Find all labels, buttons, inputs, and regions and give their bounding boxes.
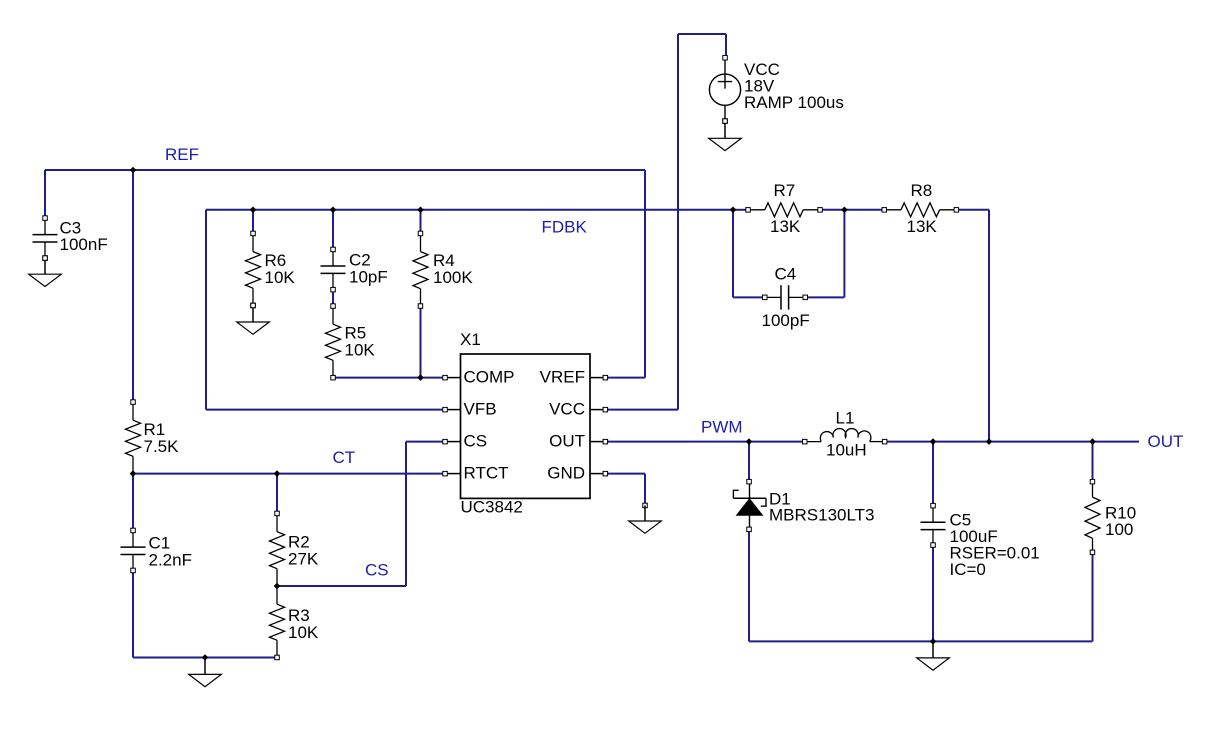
junction FDBK/C2 bbox=[330, 207, 337, 214]
capacitor C4 bbox=[763, 285, 808, 309]
IC X1 UC3842 body bbox=[443, 354, 608, 498]
junction CT/R1 bbox=[130, 470, 137, 477]
svg-text:OUT: OUT bbox=[1148, 432, 1184, 451]
wire C4 right vertical bbox=[843, 210, 845, 298]
wire FDBK to VFB pin bbox=[206, 409, 445, 411]
wire OUT rail to C5 bbox=[932, 442, 934, 506]
ground left rail bbox=[189, 658, 222, 687]
svg-text:CS: CS bbox=[365, 561, 389, 580]
junction CT/R2 bbox=[274, 470, 281, 477]
resistor R10 bbox=[1085, 479, 1100, 554]
svg-text:CT: CT bbox=[333, 448, 356, 467]
wire C1 to bottom rail bbox=[132, 571, 134, 658]
wire OUT rail to R10 bbox=[1092, 442, 1094, 482]
ground right rail bbox=[917, 641, 950, 670]
junction COMP/R4/R5 bbox=[417, 374, 424, 381]
wire C5 to bottom rail bbox=[932, 545, 934, 641]
wire R4 to COMP node bbox=[420, 306, 422, 378]
resistor R8 bbox=[882, 203, 959, 217]
junction FDBK/R4 bbox=[417, 207, 424, 214]
resistor R2 bbox=[270, 511, 285, 586]
wire REF rail horizontal bbox=[45, 169, 645, 171]
svg-text:MBRS130LT3: MBRS130LT3 bbox=[769, 506, 875, 525]
wire VREF pin stub bbox=[605, 377, 645, 379]
junction REF/R1 bbox=[130, 167, 137, 174]
resistor R5 bbox=[326, 304, 341, 380]
wire CS vertical bbox=[405, 442, 407, 586]
svg-text:L1: L1 bbox=[836, 409, 855, 428]
wire FDBK to R4 bbox=[420, 210, 422, 234]
diode D1 bbox=[733, 479, 766, 531]
resistor R3 bbox=[270, 586, 285, 660]
svg-text:CS: CS bbox=[464, 432, 488, 451]
wire C4 left horizontal bbox=[733, 296, 765, 298]
svg-text:100pF: 100pF bbox=[762, 311, 810, 330]
wire VCC top horizontal bbox=[678, 33, 726, 35]
wire CS to pin bbox=[406, 441, 445, 443]
svg-text:13K: 13K bbox=[907, 217, 938, 236]
wire GND pin stub bbox=[605, 473, 645, 475]
svg-text:R8: R8 bbox=[911, 181, 933, 200]
svg-text:RAMP 100us: RAMP 100us bbox=[744, 93, 844, 112]
wire FDBK to R6 bbox=[252, 210, 254, 234]
wire C4 right horizontal bbox=[805, 296, 844, 298]
junction CS/R2/R3 bbox=[274, 583, 281, 590]
wire GND pin down bbox=[644, 474, 646, 506]
svg-text:100: 100 bbox=[1105, 520, 1133, 539]
svg-text:OUT: OUT bbox=[549, 432, 585, 451]
svg-text:10K: 10K bbox=[345, 341, 376, 360]
wire FDBK down left bbox=[205, 210, 207, 410]
svg-text:10K: 10K bbox=[288, 623, 319, 642]
svg-text:VREF: VREF bbox=[540, 368, 585, 387]
wire FDBK to C2 bbox=[332, 210, 334, 250]
resistor R6 bbox=[246, 231, 261, 308]
svg-text:100nF: 100nF bbox=[60, 235, 108, 254]
resistor R4 bbox=[413, 231, 428, 308]
wire R7 to node bbox=[820, 209, 844, 211]
wire PWM node to D1 bbox=[748, 442, 750, 482]
resistor R7 bbox=[746, 203, 823, 217]
wire R5 to COMP node bbox=[333, 377, 445, 379]
svg-text:27K: 27K bbox=[288, 550, 319, 569]
svg-text:PWM: PWM bbox=[701, 418, 743, 437]
ground at C3 bbox=[29, 256, 62, 287]
wire CT node to C1 bbox=[132, 474, 134, 531]
svg-text:COMP: COMP bbox=[464, 368, 515, 387]
wire R8 down to OUT rail bbox=[988, 210, 990, 442]
wire R10 to bottom rail bbox=[1092, 552, 1094, 641]
wire REF to C3 bbox=[44, 170, 46, 218]
svg-text:UC3842: UC3842 bbox=[461, 498, 523, 517]
ground at VCC source bbox=[709, 119, 742, 151]
wire D1 to bottom rail bbox=[748, 529, 750, 641]
wire CT node to R2 bbox=[276, 474, 278, 514]
junction FDBK/R6 bbox=[250, 207, 257, 214]
svg-text:X1: X1 bbox=[460, 330, 481, 349]
svg-text:C4: C4 bbox=[775, 265, 797, 284]
wire CS horizontal bbox=[277, 585, 406, 587]
wire REF down to VREF pin bbox=[644, 170, 646, 378]
capacitor C1 bbox=[121, 528, 146, 573]
wire node to R8 bbox=[844, 209, 884, 211]
junction right ground bbox=[930, 638, 937, 645]
wire bottom rail left bbox=[133, 657, 277, 659]
svg-text:VFB: VFB bbox=[464, 400, 497, 419]
wire L1 to OUT end bbox=[885, 441, 1139, 443]
junction R7/C4 left bbox=[730, 207, 737, 214]
wire FDBK node to R7 bbox=[733, 209, 748, 211]
voltage source VCC bbox=[709, 56, 740, 124]
capacitor C5 bbox=[921, 503, 946, 547]
wire FDBK rail horizontal bbox=[206, 209, 733, 211]
wire C2 to R5 bbox=[332, 290, 334, 306]
svg-text:7.5K: 7.5K bbox=[144, 437, 180, 456]
wire VCC vertical bbox=[677, 34, 679, 410]
wire VCC to source bbox=[725, 34, 727, 58]
svg-text:R7: R7 bbox=[774, 181, 796, 200]
junction OUT/R10 bbox=[1089, 438, 1096, 445]
wire VCC pin stub bbox=[605, 409, 678, 411]
junction left ground bbox=[202, 654, 209, 661]
svg-text:REF: REF bbox=[165, 145, 199, 164]
wire OUT pin to L1 bbox=[605, 441, 805, 443]
svg-text:IC=0: IC=0 bbox=[950, 560, 986, 579]
ground at X1 GND pin bbox=[629, 503, 662, 533]
svg-text:2.2nF: 2.2nF bbox=[149, 551, 192, 570]
svg-text:RTCT: RTCT bbox=[464, 464, 509, 483]
wire bottom rail right bbox=[749, 640, 1093, 642]
svg-text:10K: 10K bbox=[265, 268, 296, 287]
svg-text:13K: 13K bbox=[770, 217, 801, 236]
junction OUT/R8 bbox=[986, 438, 993, 445]
inductor L1 bbox=[803, 429, 887, 444]
junction R7/C4 right bbox=[841, 207, 848, 214]
wire CT rail bbox=[133, 473, 445, 475]
svg-text:100K: 100K bbox=[433, 268, 473, 287]
svg-text:10uH: 10uH bbox=[826, 441, 867, 460]
ground at R6 bbox=[237, 303, 270, 334]
wire C4 left vertical bbox=[732, 210, 734, 298]
resistor R1 bbox=[126, 400, 141, 474]
svg-text:VCC: VCC bbox=[549, 400, 585, 419]
capacitor C2 bbox=[321, 247, 346, 292]
svg-text:GND: GND bbox=[547, 464, 585, 483]
svg-text:10pF: 10pF bbox=[349, 268, 388, 287]
capacitor C3 bbox=[33, 216, 58, 260]
svg-text:FDBK: FDBK bbox=[542, 218, 588, 237]
wire REF down to R1 bbox=[132, 170, 134, 402]
wire R8 right bbox=[956, 209, 989, 211]
junction PWM/D1 bbox=[746, 438, 753, 445]
junction OUT/C5 bbox=[930, 438, 937, 445]
